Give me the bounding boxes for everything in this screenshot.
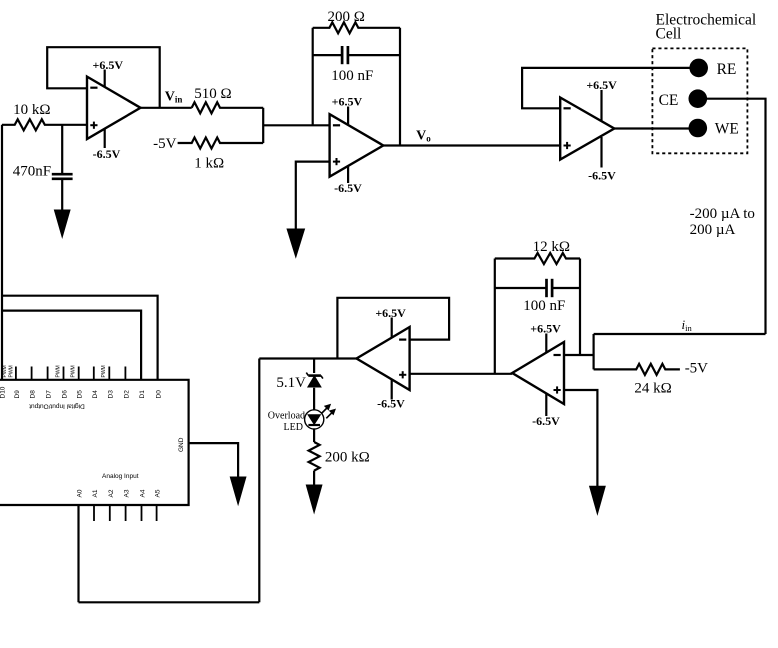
wire zener to LED bbox=[313, 388, 315, 411]
svg-text:510 Ω: 510 Ω bbox=[194, 86, 231, 102]
svg-text:A3: A3 bbox=[124, 489, 131, 497]
svg-text:Digital Input/Output: Digital Input/Output bbox=[29, 403, 85, 410]
svg-text:+6.5V: +6.5V bbox=[93, 58, 124, 72]
pin tick A1 bbox=[93, 505, 95, 521]
wire branch to zener bbox=[313, 359, 315, 374]
wire junction node vertical bbox=[262, 108, 264, 143]
resistor R3 1 kOhm from -5V bbox=[178, 138, 264, 149]
svg-text:PWM: PWM bbox=[2, 365, 8, 377]
pin tick A5 bbox=[156, 505, 158, 521]
wire capacitor branch right bbox=[348, 54, 400, 56]
pin tick D2 bbox=[124, 367, 126, 380]
wire U3 inverting input to RE bbox=[522, 68, 690, 108]
svg-text:RE: RE bbox=[717, 61, 737, 78]
supply -6.5V stub U4 bbox=[391, 379, 393, 400]
pin - of U4 bbox=[399, 339, 406, 341]
svg-text:PWM: PWM bbox=[8, 365, 14, 377]
wire U4 output bbox=[259, 357, 356, 359]
wire node to capacitor bbox=[61, 125, 63, 175]
svg-text:Overload: Overload bbox=[268, 411, 305, 422]
svg-text:200 µA: 200 µA bbox=[690, 222, 736, 238]
svg-text:PWM: PWM bbox=[71, 365, 77, 377]
supply -6.5V stub U5 bbox=[545, 393, 547, 416]
svg-text:+6.5V: +6.5V bbox=[332, 94, 363, 108]
svg-text:100 nF: 100 nF bbox=[331, 68, 373, 84]
svg-text:-6.5V: -6.5V bbox=[377, 397, 405, 411]
supply +6.5V stub U5 bbox=[545, 334, 547, 353]
pin tick D4 bbox=[93, 367, 95, 380]
wire capacitor to ground bbox=[61, 179, 63, 212]
wire resistor to ground bbox=[313, 471, 315, 487]
pin tick D3 bbox=[108, 367, 110, 380]
svg-text:D4: D4 bbox=[92, 390, 99, 399]
svg-text:CE: CE bbox=[659, 92, 679, 109]
op-amp U2 bbox=[330, 114, 384, 177]
capacitor C1 470nF bbox=[52, 173, 73, 176]
wire capacitor branch right U5 bbox=[552, 287, 580, 289]
wire U5 + input to ground bbox=[564, 390, 597, 488]
ground symbol under U2 bbox=[287, 229, 304, 257]
svg-text:PWM: PWM bbox=[101, 365, 107, 377]
svg-text:200 kΩ: 200 kΩ bbox=[325, 450, 370, 466]
svg-text:A0: A0 bbox=[77, 489, 84, 497]
resistor R4 200 Ohm feedback bbox=[313, 22, 400, 33]
wire U5 output to U4 + input bbox=[410, 373, 513, 375]
resistor R2 510 Ohm bbox=[192, 102, 264, 113]
svg-text:GND: GND bbox=[178, 437, 185, 452]
svg-text:D7: D7 bbox=[46, 390, 53, 399]
pin tick D8 bbox=[31, 367, 33, 380]
svg-text:1 kΩ: 1 kΩ bbox=[194, 155, 224, 171]
svg-text:12 kΩ: 12 kΩ bbox=[533, 239, 570, 255]
wire output down to Arduino A0 net bbox=[258, 359, 260, 603]
svg-text:A1: A1 bbox=[92, 489, 99, 497]
wire iin horizontal bbox=[594, 333, 766, 335]
wire GND pin to ground bbox=[189, 443, 239, 479]
supply -6.5V stub U3 bbox=[600, 137, 602, 168]
svg-text:-6.5V: -6.5V bbox=[334, 181, 362, 195]
svg-text:D1: D1 bbox=[139, 390, 146, 399]
wire summing node vertical bbox=[592, 334, 594, 369]
capacitor C2 100 nF bbox=[341, 46, 344, 64]
capacitor C3 100 nF bbox=[545, 279, 548, 297]
pin tick D9 bbox=[15, 367, 17, 380]
svg-text:470nF: 470nF bbox=[13, 164, 51, 180]
svg-text:-200 µA to: -200 µA to bbox=[690, 206, 755, 222]
svg-text:LED: LED bbox=[284, 422, 303, 433]
svg-text:D0: D0 bbox=[156, 390, 163, 399]
wire U5 inverting input bbox=[564, 354, 594, 356]
svg-text:Vin: Vin bbox=[165, 90, 183, 105]
resistor R7 200 kOhm bbox=[309, 442, 320, 471]
svg-text:WE: WE bbox=[715, 120, 739, 137]
svg-text:24 kΩ: 24 kΩ bbox=[634, 381, 671, 397]
op-amp U4 buffer bbox=[357, 327, 410, 390]
resistor R6 24 kOhm to -5V bbox=[594, 364, 680, 375]
ground symbol under 200 kOhm bbox=[306, 485, 322, 513]
wire U2 feedback right leg bbox=[399, 28, 401, 146]
svg-text:A4: A4 bbox=[140, 489, 147, 497]
pin + of U2 bbox=[333, 161, 340, 163]
op-amp U1 buffer bbox=[87, 77, 141, 139]
pin + of U5 bbox=[554, 389, 561, 391]
supply +6.5V stub U2 bbox=[347, 107, 349, 125]
pin tick D6 bbox=[63, 367, 65, 380]
wire capacitor branch left U5 bbox=[495, 287, 547, 289]
svg-text:D6: D6 bbox=[62, 390, 69, 399]
wire bottom horizontal to A0 bbox=[79, 601, 260, 603]
pin tick A2 bbox=[109, 505, 111, 521]
wire U5 feedback right leg bbox=[579, 259, 581, 356]
svg-text:-5V: -5V bbox=[685, 361, 708, 377]
wire junction to U2 inverting input bbox=[263, 124, 329, 126]
svg-text:+6.5V: +6.5V bbox=[586, 78, 617, 92]
LED D2 overload indicator bbox=[305, 410, 324, 429]
svg-text:-6.5V: -6.5V bbox=[532, 414, 560, 428]
wire capacitor branch left bbox=[313, 54, 342, 56]
wire Vo output bbox=[383, 144, 560, 146]
terminal CE bbox=[689, 89, 708, 108]
pin + of U4 bbox=[399, 374, 406, 376]
svg-text:A2: A2 bbox=[108, 489, 115, 497]
op-amp U5 transimpedance bbox=[512, 342, 564, 404]
pin - of U1 bbox=[90, 87, 97, 89]
svg-text:D3: D3 bbox=[107, 390, 114, 399]
supply -6.5V stub U2 bbox=[347, 166, 349, 183]
pin tick A3 bbox=[125, 505, 127, 521]
svg-text:200 Ω: 200 Ω bbox=[328, 9, 365, 25]
svg-text:+6.5V: +6.5V bbox=[375, 306, 406, 320]
ground symbol under C1 bbox=[54, 210, 70, 237]
svg-text:A5: A5 bbox=[155, 489, 162, 497]
wire feedback loop U1 output to inverting input bbox=[47, 47, 160, 108]
Arduino board outline bbox=[0, 380, 189, 505]
pin tick A4 bbox=[141, 505, 143, 521]
resistor R5 12 kOhm feedback bbox=[495, 253, 580, 264]
svg-text:5.1V: 5.1V bbox=[276, 375, 306, 391]
ground symbol under GND wire bbox=[230, 477, 246, 504]
wire U3 output to WE bbox=[614, 127, 689, 129]
pin tick D7 bbox=[47, 367, 49, 380]
svg-text:Cell: Cell bbox=[656, 26, 682, 43]
supply +6.5V stub U1 bbox=[104, 70, 106, 87]
svg-text:D2: D2 bbox=[123, 390, 130, 399]
wire U2 feedback left leg bbox=[312, 28, 314, 126]
svg-text:-5V: -5V bbox=[153, 136, 176, 152]
terminal RE bbox=[689, 59, 708, 78]
zener diode D1 5.1V bbox=[308, 374, 321, 377]
wire branch to D1 pin bbox=[2, 311, 141, 380]
wire U2 + input to ground bbox=[296, 162, 330, 231]
LED emission arrows bbox=[321, 408, 327, 414]
terminal WE bbox=[689, 119, 708, 138]
wire A0 pin vertical bbox=[77, 505, 79, 602]
supply +6.5V stub U3 bbox=[600, 90, 602, 121]
resistor R1 10 kOhm input bbox=[2, 119, 87, 130]
svg-text:-6.5V: -6.5V bbox=[588, 169, 616, 183]
wire U4 feedback loop bbox=[337, 298, 449, 359]
wire CE to current follower bbox=[706, 99, 765, 334]
svg-text:+6.5V: +6.5V bbox=[530, 322, 561, 336]
supply +6.5V stub U4 bbox=[391, 318, 393, 338]
pin - of U3 bbox=[564, 107, 571, 109]
svg-text:D5: D5 bbox=[77, 390, 84, 399]
pin - of U5 bbox=[554, 354, 561, 356]
wire input net vertical from 10 k&Omega; down to Arduino D10 pin bbox=[1, 125, 3, 380]
svg-text:D8: D8 bbox=[30, 390, 37, 399]
svg-text:-6.5V: -6.5V bbox=[93, 147, 121, 161]
ground symbol under U5 bbox=[590, 486, 606, 514]
svg-text:D10: D10 bbox=[0, 386, 7, 398]
svg-text:Vo: Vo bbox=[416, 129, 431, 144]
wire U1 output Vin node bbox=[141, 107, 192, 109]
svg-text:iin: iin bbox=[682, 317, 693, 333]
svg-text:PWM: PWM bbox=[56, 365, 62, 377]
wire branch to D0 pin bbox=[2, 296, 158, 380]
svg-text:Analog Input: Analog Input bbox=[102, 473, 139, 480]
pin - of U2 bbox=[333, 124, 340, 126]
pin + of U1 bbox=[90, 124, 97, 126]
op-amp U3 control amplifier bbox=[560, 98, 614, 160]
supply -6.5V stub U1 bbox=[104, 129, 106, 148]
wire U5 feedback left leg bbox=[494, 259, 496, 374]
svg-text:D9: D9 bbox=[14, 390, 21, 399]
svg-text:100 nF: 100 nF bbox=[523, 298, 565, 314]
electrochemical cell dashed box bbox=[652, 48, 747, 153]
wire LED to resistor bbox=[313, 429, 315, 442]
svg-text:10 kΩ: 10 kΩ bbox=[13, 102, 50, 118]
pin tick D5 bbox=[78, 367, 80, 380]
pin + of U3 bbox=[564, 145, 571, 147]
